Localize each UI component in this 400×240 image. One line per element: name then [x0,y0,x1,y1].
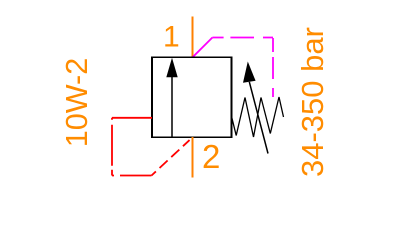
pilot line diagonal segment (magenta) [193,38,213,58]
svg-text:1: 1 [163,21,180,54]
drain line left vertical (red) [111,118,113,176]
svg-text:10W-2: 10W-2 [60,58,94,148]
valve body (square) [152,57,232,137]
drain line top segment (red) [112,117,152,119]
svg-text:34-350 bar: 34-350 bar [295,27,330,177]
drain line diagonal to port 2 (red dashed) [152,137,193,175]
flow arrow head [166,58,177,78]
pilot line dashed run (magenta) [212,37,273,39]
port line 1 (orange, top) [192,17,194,58]
drain line bottom segment (red) [112,175,152,177]
svg-text:2: 2 [202,138,220,175]
spring (zigzag) [232,97,284,137]
adjustment arrow shaft (crosses spring) [249,82,268,154]
adjustment arrow head [243,62,256,83]
flow arrow shaft (vertical, inside valve) [171,74,173,137]
port line 2 (orange, bottom) [192,137,194,178]
